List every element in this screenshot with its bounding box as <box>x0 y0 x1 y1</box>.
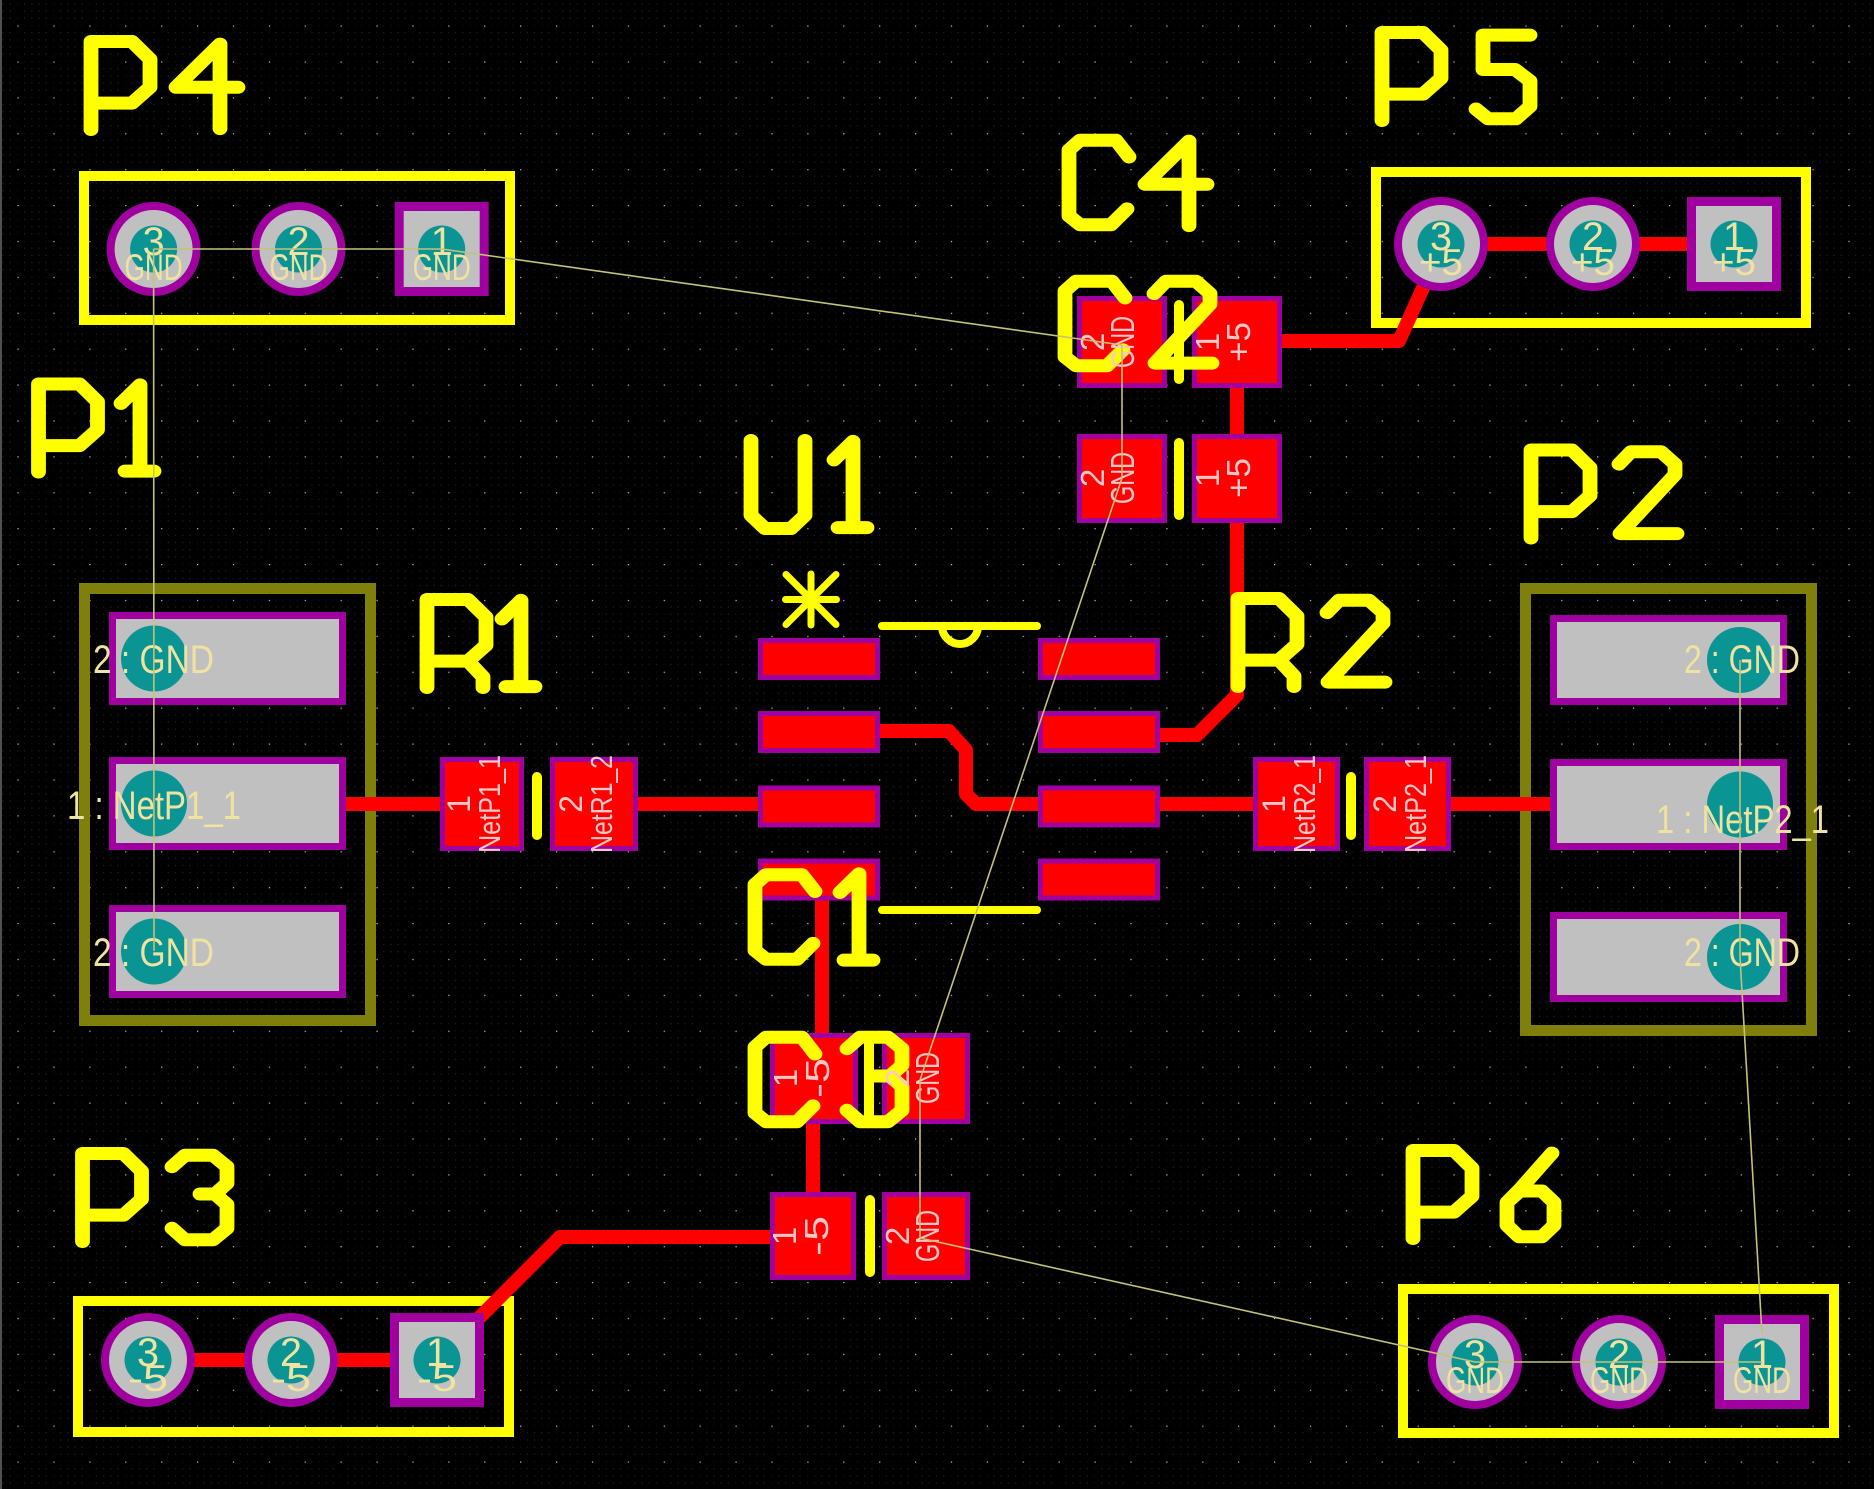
C1 pad 2 (GND) <box>882 1033 970 1124</box>
P3 pad 3 (-5) <box>101 1313 195 1407</box>
R2 silkscreen divider <box>1346 777 1356 835</box>
svg-text:GND: GND <box>270 247 328 288</box>
label C1 <box>755 874 873 960</box>
wire NetP2_1 R2.2 to P2.1 <box>1407 797 1620 811</box>
svg-text:-5: -5 <box>271 1358 311 1399</box>
C2 pad2 net text <box>1074 316 1141 368</box>
C2 pad1 net text <box>1189 322 1257 362</box>
R2 pad 1 (NetR2_1) <box>1253 757 1340 851</box>
P5 pad 2 (+5) <box>1546 197 1640 291</box>
P4 pad 3 (GND) <box>107 202 201 296</box>
P2 pad 2 bottom (GND) <box>1550 912 1787 1002</box>
C2 pad 1 (+5) <box>1192 296 1282 388</box>
ratsnest GND P2.2-P2.3 <box>1739 660 1741 957</box>
ratsnest GND C2.2-C4.2 <box>1121 345 1123 478</box>
U1 pad 3 <box>758 786 880 828</box>
svg-text:GND: GND <box>1446 1360 1504 1401</box>
svg-text:GND: GND <box>1733 1360 1791 1401</box>
wire -5 P3.1 to C3.1 <box>437 1237 813 1360</box>
window edge highlight <box>0 0 2 1489</box>
R2 pad 2 (NetP2_1) <box>1364 757 1451 851</box>
svg-text:-5: -5 <box>417 1358 457 1399</box>
P6 pad 2 (GND) <box>1572 1315 1666 1409</box>
C2 pad 2 (GND) <box>1077 296 1167 388</box>
connector P2 body outline <box>1526 589 1812 1031</box>
P4 pad 2 (GND) <box>252 202 346 296</box>
svg-text:+5: +5 <box>1712 242 1756 283</box>
svg-text:NetP1_1: NetP1_1 <box>472 755 507 853</box>
P2 pad 2 top (GND) <box>1550 615 1787 705</box>
U1 pad 1 <box>758 638 880 680</box>
svg-text:GND: GND <box>909 1210 946 1262</box>
label P3 <box>83 1154 228 1242</box>
label P4 <box>91 42 238 130</box>
ratsnest GND P6.3-P6.1 <box>1475 1361 1762 1363</box>
label R2 <box>1238 599 1385 687</box>
wire +5 P5.3 to C2.1 <box>1237 248 1441 341</box>
wire -5 C3.1 to C1.1 <box>806 1078 820 1237</box>
ratsnest GND P4.1-C2.2 <box>442 249 1122 345</box>
label C3 <box>755 1037 902 1121</box>
P6 pad3 text <box>1446 1333 1504 1401</box>
svg-text:1 : NetP2_1: 1 : NetP2_1 <box>1656 798 1829 842</box>
wire NetR2_1 U1.6 to R2.1 <box>976 797 1297 811</box>
C3 pad2 net text <box>879 1210 946 1262</box>
C3 pad 1 (-5) <box>770 1192 856 1280</box>
U1 pad 7 <box>1038 711 1160 753</box>
U1 silkscreen top line with pin-1 notch <box>882 626 1037 644</box>
C2 silkscreen divider <box>1174 305 1184 379</box>
ratsnest GND P4.3-P1 pads <box>153 249 155 951</box>
C1 silkscreen divider <box>864 1042 874 1116</box>
C4 pad 2 (GND) <box>1077 434 1167 523</box>
svg-text:+5: +5 <box>1220 322 1257 362</box>
svg-text:+5: +5 <box>1571 242 1615 283</box>
svg-text:NetR1_2: NetR1_2 <box>584 755 619 853</box>
R1 pad 2 (NetR1_2) <box>550 757 638 851</box>
C4 pad1 net text <box>1189 458 1257 498</box>
C1 origin marker <box>864 1033 874 1043</box>
P3 pad 2 (-5) <box>244 1313 338 1407</box>
P3 pad 1 (-5) <box>390 1313 484 1407</box>
wire -5 C1.1 to U1.4 <box>815 880 829 1078</box>
svg-text:+5: +5 <box>1220 458 1257 498</box>
label P6 <box>1413 1151 1554 1239</box>
U1 pad 5 <box>1038 859 1160 901</box>
R1 pad1 net text <box>441 755 507 853</box>
label C2 <box>1065 281 1212 365</box>
connector P3 silkscreen outline <box>78 1301 509 1432</box>
svg-text:+5: +5 <box>1419 242 1463 283</box>
P4 pad3 text <box>125 220 183 288</box>
C1 pad2 net text <box>879 1052 946 1104</box>
U1 reference asterisk <box>786 574 837 625</box>
svg-text:-5: -5 <box>798 1216 835 1256</box>
P2 pad 1 (NetP2_1) <box>1550 759 1787 850</box>
P5 pad1 text <box>1712 215 1756 283</box>
wire NetR1_2 R1.2 to U1.3 <box>594 797 820 811</box>
wire +5 C2.1 to C4.1 to U1.7 <box>1150 341 1237 735</box>
svg-text:GND: GND <box>413 247 471 288</box>
label P5 <box>1382 33 1530 121</box>
label C4 <box>1069 140 1207 225</box>
U1 pad 2 <box>758 711 880 753</box>
C3 pad1 net text <box>766 1216 835 1256</box>
svg-text:NetP2_1: NetP2_1 <box>1398 755 1433 853</box>
P3 pad3 text <box>128 1331 168 1399</box>
ratsnest GND P6.1-P2.3 <box>1740 957 1762 1334</box>
R1 pad2 net text <box>553 755 619 853</box>
ratsnest GND C3.2-P6.3 <box>920 1238 1475 1362</box>
connector P6 silkscreen outline <box>1403 1289 1834 1433</box>
P5 pad 1 (+5) <box>1687 197 1781 291</box>
svg-text:NetR2_1: NetR2_1 <box>1287 755 1322 853</box>
C1 pad1 net text <box>767 1058 836 1098</box>
P5 pad2 text <box>1571 215 1615 283</box>
P4 pad 1 (GND) <box>395 202 489 296</box>
connector P4 silkscreen outline <box>84 176 510 320</box>
label P1 <box>39 384 155 472</box>
P3 pad2 text <box>271 1331 311 1399</box>
svg-text:2 : GND: 2 : GND <box>1684 638 1800 682</box>
svg-text:-5: -5 <box>799 1058 836 1098</box>
P1 pad 2 bottom (GND) <box>109 905 346 998</box>
C1 pad 1 (-5) <box>770 1033 858 1124</box>
R1 silkscreen divider <box>532 777 542 835</box>
ratsnest GND C4.2-C1.2 <box>920 478 1122 1080</box>
ratsnest GND C1.2-C3.2 <box>919 1080 921 1238</box>
P4 pad2 text <box>270 220 328 288</box>
U1 silkscreen bottom line <box>882 906 1037 914</box>
P3 pad1 text <box>417 1331 457 1399</box>
P6 pad 3 (GND) <box>1428 1315 1522 1409</box>
connector P1 body outline <box>85 589 371 1021</box>
P1 pad 2 top (GND) <box>109 612 346 705</box>
C2 origin marker <box>1173 357 1184 368</box>
label U1 <box>751 441 867 529</box>
wire -5 P3 pads <box>148 1353 437 1367</box>
C3 silkscreen divider <box>865 1200 875 1272</box>
R1 pad 1 (NetP1_1) <box>440 757 524 851</box>
P5 pad 3 (+5) <box>1394 197 1488 291</box>
U1 pad 6 <box>1038 786 1160 828</box>
C4 pad2 net text <box>1074 452 1141 504</box>
ratsnest GND P4.3-P4.1 <box>154 248 442 250</box>
svg-text:GND: GND <box>1590 1360 1648 1401</box>
svg-text:2 : GND: 2 : GND <box>1684 931 1800 975</box>
C3 pad 2 (GND) <box>882 1192 970 1280</box>
P4 pad1 text <box>413 220 471 288</box>
wire NetP1_1 P1.1 to R1.1 <box>230 797 482 811</box>
R2 pad1 net text <box>1256 755 1322 853</box>
P6 pad 1 (GND) <box>1715 1315 1809 1409</box>
P1 pad 1 (NetP1_1) <box>109 757 346 850</box>
C4 pad 1 (+5) <box>1192 434 1282 523</box>
wire NetR2_1 U1.2 jog <box>820 731 976 804</box>
svg-text:-5: -5 <box>128 1358 168 1399</box>
label P2 <box>1531 450 1677 538</box>
P5 pad3 text <box>1419 215 1463 283</box>
U1 pad 4 <box>758 859 880 901</box>
label R1 <box>427 600 535 688</box>
P6 pad2 text <box>1590 1333 1648 1401</box>
U1 pad 8 <box>1038 638 1160 680</box>
R2 pad2 net text <box>1367 755 1433 853</box>
wire +5 P5 pads <box>1441 237 1734 251</box>
connector P5 silkscreen outline <box>1376 172 1806 323</box>
P6 pad1 text <box>1733 1333 1791 1401</box>
C4 silkscreen divider <box>1174 443 1184 515</box>
